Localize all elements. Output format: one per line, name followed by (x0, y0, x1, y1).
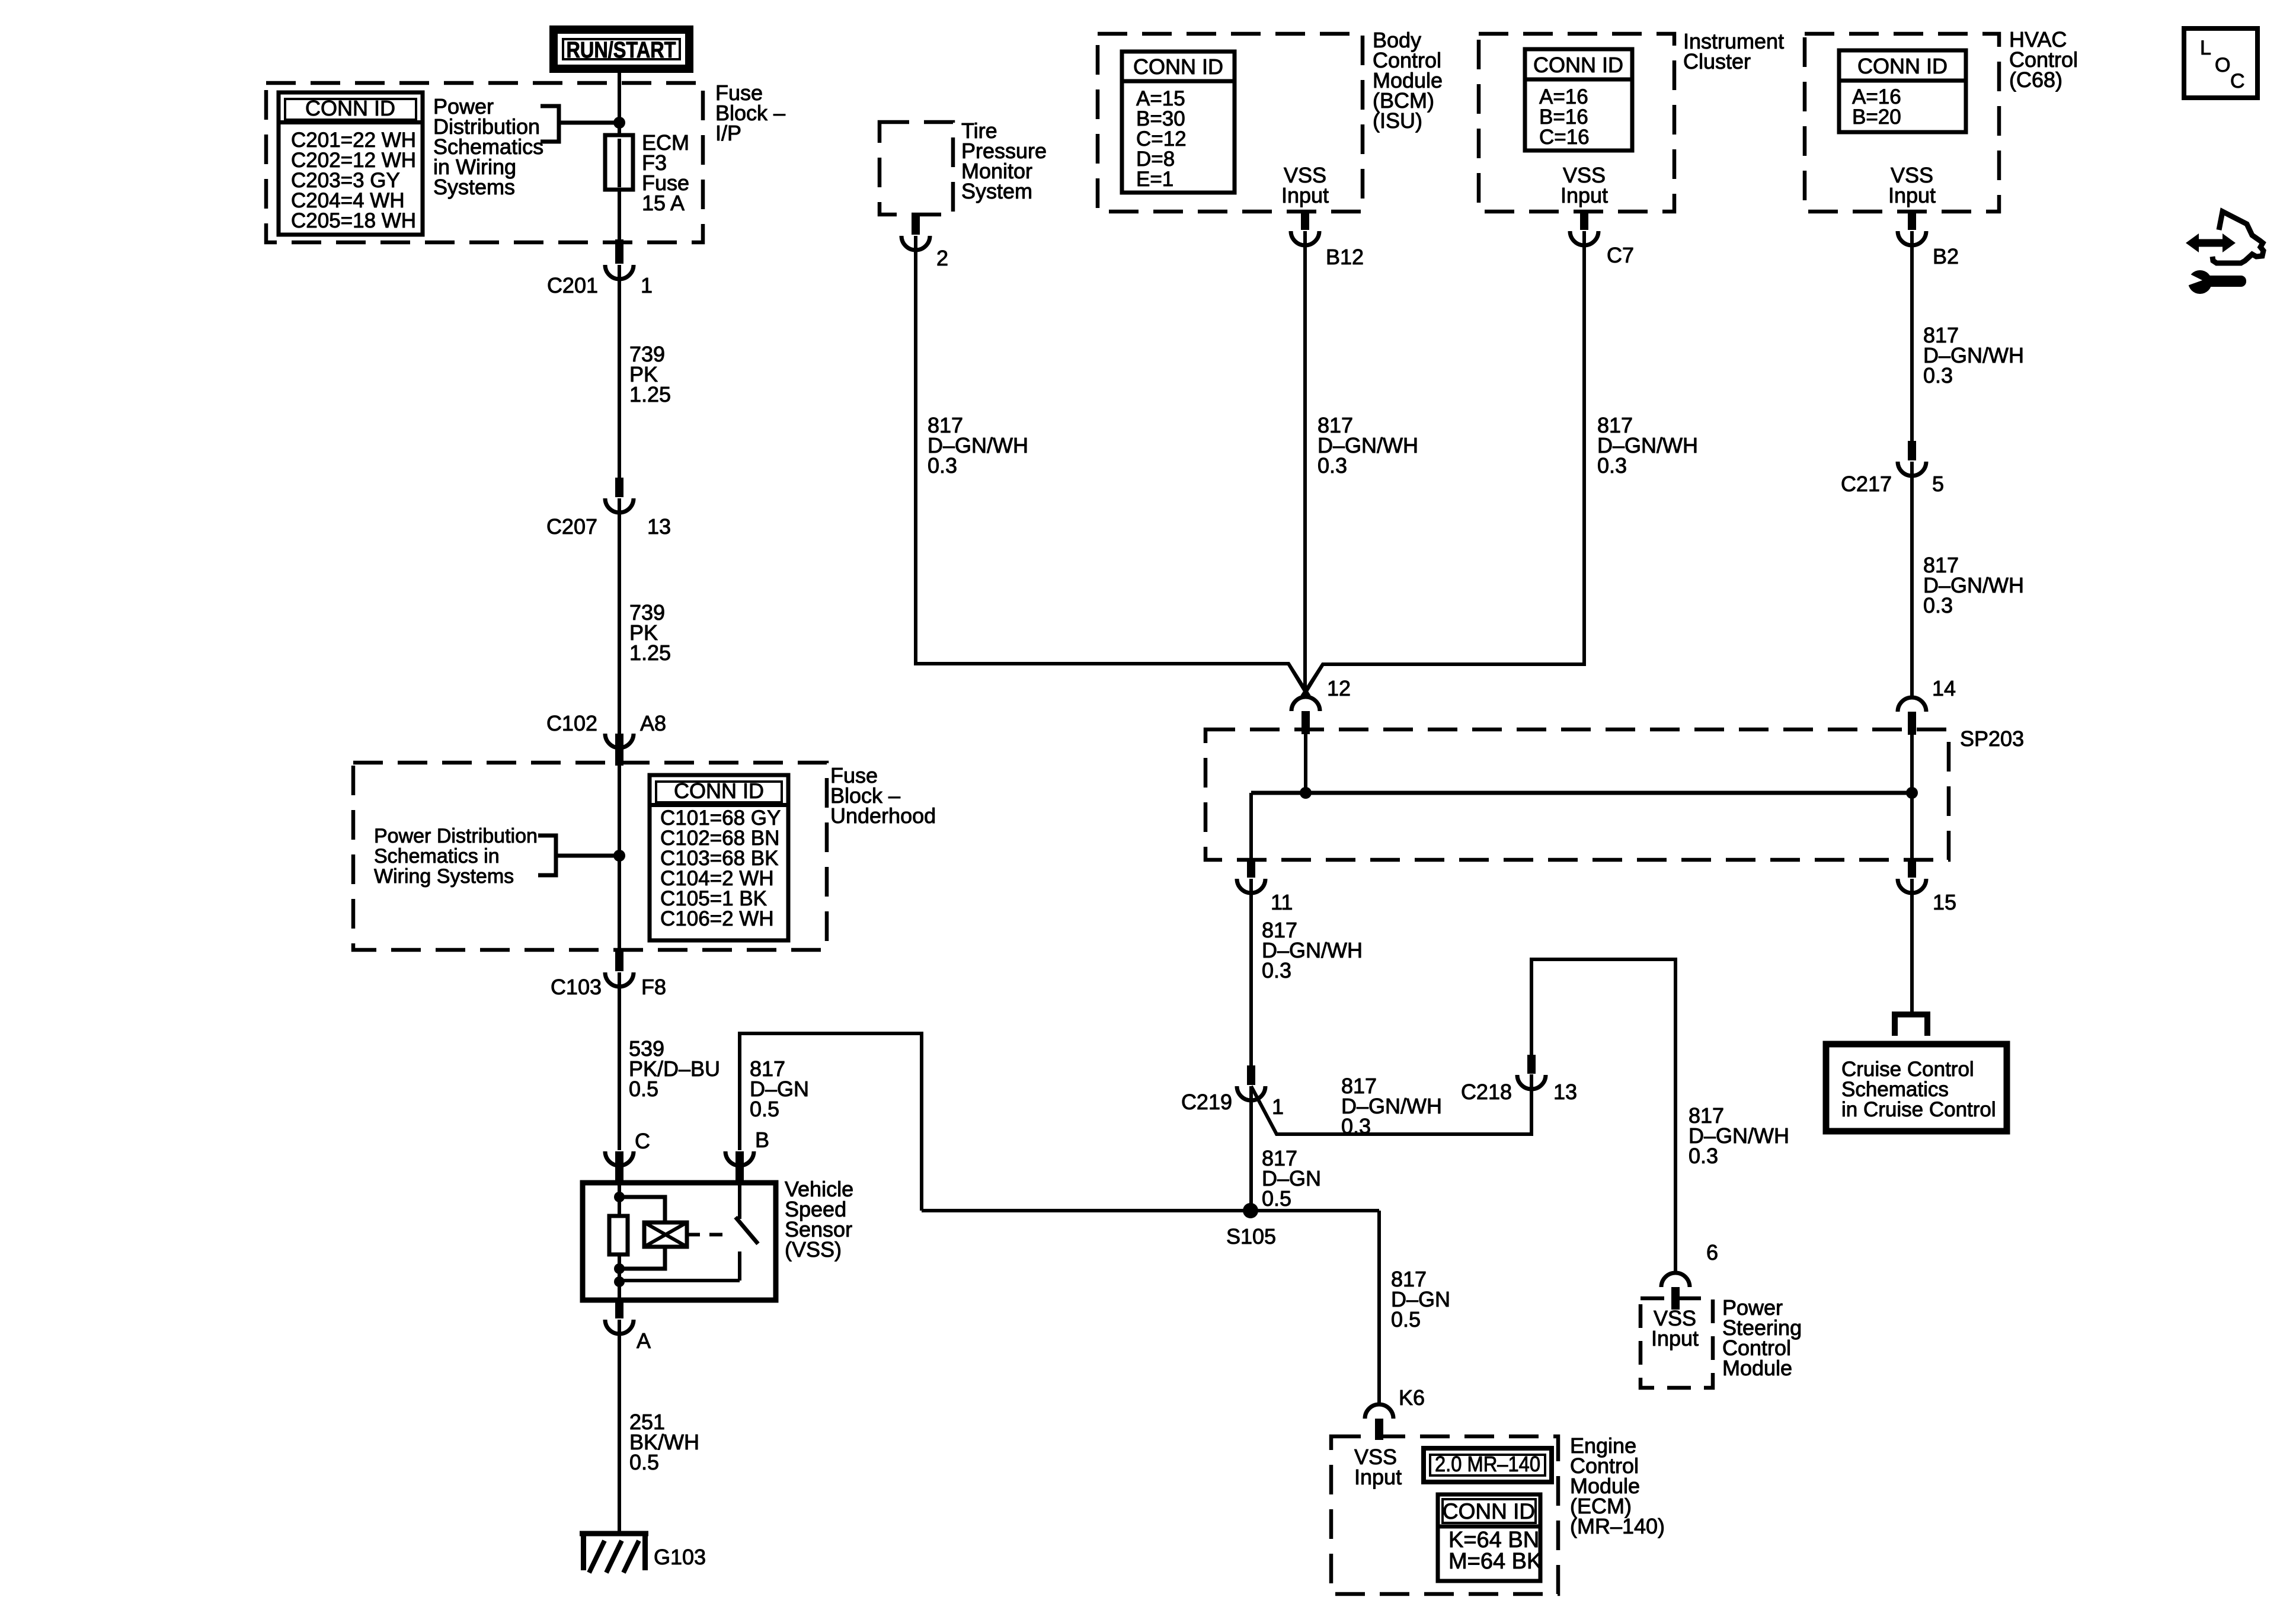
svg-text:System: System (961, 179, 1032, 203)
HVAC control dashed box (1805, 34, 1999, 212)
svg-text:B12: B12 (1326, 245, 1364, 269)
svg-text:0.3: 0.3 (1262, 958, 1291, 982)
connector C102 pin A8 (605, 734, 634, 766)
connector C217 pin 5 (1898, 441, 1926, 476)
svg-text:CONN ID: CONN ID (1443, 1499, 1535, 1523)
label VSS Input (BCM) (1281, 163, 1329, 207)
label wire 817 D-GN/WH 0.3 (to C219) (1262, 918, 1363, 982)
VSS internal wire (618, 1183, 621, 1300)
label Tire Pressure Monitor System (961, 119, 1047, 203)
wire 817 from BCM (1303, 231, 1307, 694)
CONN ID table BCM (1122, 52, 1235, 193)
engine control module dashed box (1331, 1436, 1558, 1594)
fuse F3 ECM 15A (605, 127, 633, 190)
svg-text:CONN ID: CONN ID (305, 96, 395, 120)
svg-text:C103: C103 (551, 975, 602, 999)
fuse block Underhood dashed box (353, 763, 827, 950)
wire 817 from IC (1304, 231, 1584, 695)
label wire 817 D-GN/WH 0.3 (IC) (1597, 413, 1698, 478)
svg-text:Input: Input (1888, 183, 1936, 207)
wire 14 drop inside SP203 (1910, 735, 1914, 793)
label C102 (546, 711, 597, 735)
label wire 817 D-GN/WH 0.3 (HVAC upper) (1923, 323, 2024, 388)
label wire 739 PK 1.25 (lower) (629, 600, 671, 665)
svg-text:Module: Module (1722, 1356, 1792, 1380)
label C103 (551, 975, 602, 999)
svg-text:0.3: 0.3 (928, 453, 957, 478)
CONN ID table HVAC (1839, 50, 1966, 132)
svg-text:Underhood: Underhood (830, 804, 936, 828)
label pin A8 (640, 711, 666, 735)
label pin 6 (1706, 1240, 1718, 1265)
wire 817 HVAC upper (1910, 231, 1914, 460)
svg-text:in Cruise Control: in Cruise Control (1841, 1098, 1996, 1121)
svg-text:C201: C201 (547, 273, 598, 297)
label Instrument Cluster (1683, 29, 1784, 73)
connector C201 pin 1 (605, 239, 634, 279)
label pin 12 (1327, 676, 1351, 700)
svg-text:Power Distribution: Power Distribution (374, 825, 538, 847)
ground G103 symbol (580, 1534, 648, 1573)
svg-text:I/P: I/P (715, 121, 741, 145)
label pin 1 (C219) (1272, 1094, 1284, 1119)
svg-text:Input: Input (1651, 1326, 1699, 1350)
label wire 251 BK/WH 0.5 (629, 1410, 699, 1474)
svg-text:B2: B2 (1933, 244, 1959, 268)
svg-text:C205=18 WH: C205=18 WH (291, 209, 416, 232)
svg-text:0.3: 0.3 (1923, 363, 1953, 388)
VSS switch (736, 1185, 758, 1281)
label Cruise Control Schematics in Cruise Control (1841, 1058, 1996, 1121)
label pin 2 (936, 246, 948, 270)
svg-text:M=64 BK: M=64 BK (1448, 1549, 1542, 1574)
label VSS Input (IC) (1560, 163, 1608, 207)
svg-text:0.3: 0.3 (1689, 1144, 1718, 1168)
svg-text:0.5: 0.5 (629, 1077, 658, 1101)
power feed box RUN/START (554, 30, 689, 69)
label VSS Input (ECM) (1354, 1445, 1402, 1489)
svg-text:(C68): (C68) (2009, 68, 2062, 92)
wire 251 BK/WH (618, 1320, 621, 1534)
svg-text:Input: Input (1281, 183, 1329, 207)
svg-text:G103: G103 (654, 1545, 706, 1569)
VSS coil parallel loop (619, 1197, 665, 1269)
label pin 1 (641, 273, 653, 297)
connector splice point 12 (1291, 697, 1320, 734)
svg-text:0.3: 0.3 (1341, 1114, 1371, 1138)
wire C218 riser to power steering (1531, 959, 1675, 1273)
svg-text:SP203: SP203 (1960, 726, 2024, 751)
wire RUN/START to Fuse Block I/P (618, 73, 621, 137)
svg-text:Cluster: Cluster (1683, 49, 1751, 73)
CONN ID table Underhood (650, 775, 788, 940)
svg-text:2: 2 (936, 246, 948, 270)
wire SP203 bus (1251, 791, 1912, 795)
VSS junction dot bottom (614, 1276, 625, 1287)
wire 739 PK segment 1 (618, 265, 621, 497)
label Power Distribution Schematics in Wiring Systems (I/P) (433, 94, 543, 199)
label pin B12 (1326, 245, 1364, 269)
label wire 739 PK 1.25 (upper) (629, 342, 671, 406)
label wire 817 D-GN/WH 0.3 (HVAC lower) (1923, 553, 2024, 617)
label VSS Input (HVAC) (1888, 163, 1936, 207)
wire S105 bus (922, 1209, 1379, 1212)
label pin F8 (641, 975, 666, 999)
svg-text:13: 13 (1553, 1080, 1577, 1104)
svg-text:15 A: 15 A (642, 191, 685, 215)
wire 817 from TPMS (916, 236, 1307, 695)
wire 817 HVAC lower (1910, 462, 1914, 697)
CONN ID table I/P (279, 92, 423, 235)
svg-text:A: A (637, 1329, 651, 1353)
junction dot Underhood feed (613, 850, 625, 862)
label Body Control Module (BCM) (ISU) (1373, 28, 1443, 133)
svg-text:1: 1 (641, 273, 653, 297)
svg-text:CONN ID: CONN ID (1533, 53, 1623, 77)
label pin C7 (1607, 243, 1634, 267)
CONN ID table ECM (1438, 1494, 1542, 1581)
callout bracket Power Distribution Schematics I/P (541, 106, 619, 142)
connector C207 pin 13 (605, 478, 634, 513)
svg-text:0.5: 0.5 (629, 1450, 659, 1474)
VSS resistor (609, 1216, 628, 1254)
label pin K6 (1399, 1385, 1425, 1410)
svg-text:K6: K6 (1399, 1385, 1425, 1410)
fuse block I/P dashed box (266, 83, 703, 242)
component location icon (2186, 212, 2263, 294)
body control module dashed box (1098, 34, 1363, 212)
svg-text:(VSS): (VSS) (785, 1237, 842, 1262)
wire SP203 right drop (1910, 793, 1914, 859)
power steering control module dashed box (1641, 1298, 1713, 1388)
svg-text:C: C (2230, 70, 2245, 92)
svg-text:0.3: 0.3 (1597, 453, 1627, 478)
wire 817 D-GN from B (740, 1033, 922, 1211)
connector BCM pin B12 (1291, 210, 1319, 245)
svg-text:B=20: B=20 (1852, 105, 1901, 129)
label terminal B (755, 1128, 769, 1152)
svg-text:L: L (2200, 37, 2211, 59)
connector C218 pin 13 (1517, 1055, 1546, 1089)
svg-text:C207: C207 (546, 514, 597, 539)
label wire 817 D-GN/WH 0.3 (TPMS) (928, 413, 1028, 478)
svg-text:C219: C219 (1181, 1090, 1232, 1114)
svg-text:6: 6 (1706, 1240, 1718, 1265)
svg-text:A8: A8 (640, 711, 666, 735)
label Power Distribution Schematics (Underhood) (374, 825, 538, 888)
label C201 (547, 273, 598, 297)
label wire 817 D-GN/WH 0.3 (C219-C218) (1341, 1074, 1442, 1138)
mechanical linkage dashed (687, 1233, 732, 1237)
VSS junction dot middle (614, 1263, 625, 1274)
VSS coil element (644, 1222, 687, 1247)
label G103 (654, 1545, 706, 1569)
svg-text:(MR–140): (MR–140) (1570, 1514, 1665, 1538)
label wire 539 PK/D-BU 0.5 (629, 1036, 720, 1101)
off-page connector to cruise schematics (1892, 1014, 1930, 1036)
svg-text:C102: C102 (546, 711, 597, 735)
svg-text:15: 15 (1933, 890, 1956, 914)
VSS junction dot top (614, 1192, 625, 1202)
label Fuse Block Underhood (830, 763, 936, 828)
vehicle speed sensor VSS box (583, 1183, 776, 1300)
svg-text:E=1: E=1 (1136, 168, 1173, 191)
instrument cluster dashed box (1479, 34, 1674, 212)
connector C of VSS (605, 1151, 634, 1185)
svg-text:C218: C218 (1461, 1080, 1512, 1104)
svg-text:2.0 MR–140: 2.0 MR–140 (1435, 1452, 1540, 1476)
connector C103 pin F8 (605, 949, 634, 987)
label C207 (546, 514, 597, 539)
label pin 13 (647, 514, 671, 539)
label wire 817 D-GN/WH 0.3 (power steering) (1689, 1103, 1789, 1168)
tire pressure monitor system dashed box (880, 122, 953, 215)
svg-text:5: 5 (1932, 472, 1944, 496)
svg-text:RUN/START: RUN/START (567, 38, 676, 63)
svg-text:0.5: 0.5 (1391, 1307, 1421, 1331)
svg-text:CONN ID: CONN ID (674, 779, 764, 803)
label wire 817 D-GN 0.5 (to ECM) (1391, 1267, 1450, 1331)
svg-text:Input: Input (1560, 183, 1608, 207)
wire S105 to K6 (1377, 1211, 1381, 1404)
label C219 (1181, 1090, 1232, 1114)
svg-text:0.3: 0.3 (1923, 593, 1953, 617)
junction dot fuse feed (613, 117, 625, 129)
wire C219 to S105 (1251, 1074, 1531, 1134)
label Power Steering Control Module (1722, 1295, 1802, 1380)
svg-text:0.5: 0.5 (750, 1097, 779, 1121)
label ECM F3 Fuse 15A (642, 130, 689, 215)
wire SP203 left drop (1249, 793, 1253, 859)
svg-text:Systems: Systems (433, 175, 515, 199)
label pin 15 (1933, 890, 1956, 914)
wire fuse to C201 (618, 190, 621, 241)
wire 817 to cruise control (1910, 879, 1914, 1014)
svg-text:11: 11 (1271, 890, 1293, 914)
svg-text:1: 1 (1272, 1094, 1284, 1119)
splice S105 dot (1243, 1203, 1258, 1218)
svg-text:CONN ID: CONN ID (1133, 55, 1223, 79)
splice pack SP203 dashed box (1205, 729, 1949, 860)
label wire 817 D-GN 0.5 (C219-S105) (1262, 1146, 1321, 1211)
connector A of VSS (605, 1300, 634, 1334)
label wire 817 D-GN/WH 0.3 (BCM) (1318, 413, 1418, 478)
connector splice point 6 (1661, 1273, 1690, 1310)
connector TPMS pin 2 (901, 213, 930, 250)
svg-text:C7: C7 (1607, 243, 1634, 267)
svg-text:1.25: 1.25 (629, 382, 671, 406)
label pin 13 (C218) (1553, 1080, 1577, 1104)
wire junction merge at 12 (1288, 664, 1323, 696)
svg-text:CONN ID: CONN ID (1857, 54, 1948, 78)
label Vehicle Speed Sensor (VSS) (785, 1177, 853, 1262)
connector B of VSS (725, 1151, 754, 1185)
VSS switch bottom wire (619, 1279, 740, 1282)
svg-text:C: C (635, 1129, 650, 1153)
connector C219 pin 1 (1237, 1065, 1265, 1100)
connector HVAC pin B2 (1898, 210, 1926, 245)
label pin B2 (1933, 244, 1959, 268)
label S105 (1226, 1224, 1276, 1249)
cruise control schematics box (1826, 1044, 2007, 1131)
label Fuse Block I/P (715, 81, 785, 145)
label C218 (1461, 1080, 1512, 1104)
wire 12 drop inside SP203 (1304, 734, 1307, 793)
label pin 5 (1932, 472, 1944, 496)
wire 739 PK segment 2 (618, 498, 621, 734)
label Engine Control Module (ECM) (MR-140) (1570, 1433, 1665, 1538)
svg-text:Wiring Systems: Wiring Systems (374, 865, 514, 888)
svg-text:Schematics in: Schematics in (374, 845, 500, 868)
svg-text:F8: F8 (641, 975, 666, 999)
junction dot SP203 right (1906, 787, 1918, 799)
CONN ID table Instrument Cluster (1525, 49, 1632, 151)
wire through Underhood box (618, 766, 621, 949)
label terminal A (637, 1329, 651, 1353)
svg-text:13: 13 (647, 514, 671, 539)
junction dot SP203 left (1300, 787, 1312, 799)
svg-text:0.5: 0.5 (1262, 1186, 1291, 1211)
svg-text:C106=2 WH: C106=2 WH (660, 907, 774, 930)
svg-text:C=16: C=16 (1539, 126, 1590, 149)
svg-text:O: O (2215, 54, 2230, 76)
svg-text:0.3: 0.3 (1318, 453, 1347, 478)
connector splice point 15 (1898, 859, 1926, 893)
connector splice point 14 (1898, 697, 1926, 735)
svg-text:14: 14 (1932, 676, 1956, 700)
wire C219 drop to S105 (1249, 1086, 1253, 1211)
label VSS Input (power steering) (1651, 1306, 1699, 1350)
LOC legend box (2184, 28, 2257, 98)
svg-text:S105: S105 (1226, 1224, 1276, 1249)
connector ECM pin K6 (1365, 1404, 1393, 1440)
label C217 (1841, 472, 1892, 496)
label SP203 (1960, 726, 2024, 751)
callout bracket Underhood (538, 836, 619, 875)
connector IC pin C7 (1570, 210, 1598, 245)
svg-text:12: 12 (1327, 676, 1351, 700)
wire 817 to C219 (1249, 879, 1253, 1084)
ECM 2.0 MR-140 box (1424, 1448, 1552, 1482)
svg-text:(ISU): (ISU) (1373, 108, 1422, 133)
svg-text:C217: C217 (1841, 472, 1892, 496)
label pin 14 (1932, 676, 1956, 700)
label pin 11 (1271, 890, 1293, 914)
label HVAC Control (C68) (2009, 27, 2078, 92)
connector splice point 11 (1237, 859, 1265, 893)
label wire 817 D-GN 0.5 (B wire) (750, 1057, 809, 1121)
svg-text:B: B (755, 1128, 769, 1152)
label terminal C (635, 1129, 650, 1153)
svg-text:1.25: 1.25 (629, 641, 671, 665)
svg-text:Input: Input (1354, 1465, 1402, 1489)
wire 539 PK/D-BU (618, 972, 621, 1150)
